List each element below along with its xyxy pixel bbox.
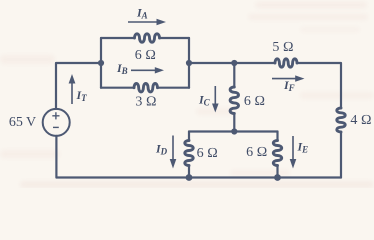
svg-text:6 Ω: 6 Ω (244, 94, 265, 109)
wire inner box right vertical (276, 132, 278, 141)
wire inner box left vertical (188, 132, 190, 141)
wire bottom branch left (101, 87, 134, 89)
arrow ID (172, 136, 174, 161)
wire middle branch upper (233, 63, 235, 87)
wire node B to 5-ohm (189, 62, 275, 64)
node F (274, 174, 281, 181)
wire top branch right (160, 37, 190, 39)
wire top branch left (101, 37, 135, 39)
resistor 6 ohm middle branch (230, 87, 238, 114)
arrow IT (71, 83, 73, 105)
svg-text:4 Ω: 4 Ω (350, 113, 371, 128)
resistor 6 ohm bottom right (273, 141, 281, 166)
resistor 5 ohm (275, 59, 297, 67)
svg-text:5 Ω: 5 Ω (272, 40, 293, 55)
node E (186, 174, 193, 181)
wire bottom rail (57, 176, 342, 178)
wire box right edge (188, 38, 190, 88)
svg-text:6 Ω: 6 Ω (135, 48, 156, 63)
wire inner box top (189, 130, 278, 132)
resistor 6 ohm top branch (135, 34, 160, 42)
arrow IE (292, 136, 294, 160)
wire source top to node A (56, 63, 101, 109)
svg-text:3 Ω: 3 Ω (135, 94, 156, 109)
arrow IA (128, 21, 158, 23)
node C (231, 60, 237, 66)
arrow IF (272, 78, 296, 80)
arrow IC (214, 86, 216, 105)
voltage source V1 65 V (43, 109, 70, 136)
arrow IB (131, 69, 156, 71)
wire right edge lower (340, 132, 342, 178)
node A (98, 60, 104, 66)
resistor 3 ohm bottom branch (134, 84, 157, 92)
paper background (0, 0, 374, 188)
node D (231, 128, 237, 134)
svg-text:6 Ω: 6 Ω (197, 146, 218, 161)
wire 5-ohm to top right corner and down (297, 63, 341, 108)
svg-text:6 Ω: 6 Ω (246, 145, 267, 160)
resistor 4 ohm (337, 108, 345, 132)
wire bottom branch right (158, 87, 190, 89)
svg-text:65 V: 65 V (9, 115, 36, 130)
resistor 6 ohm bottom left (185, 141, 193, 166)
wire bottom left up to source (55, 136, 57, 178)
node B (186, 60, 192, 66)
wire box left edge (100, 38, 102, 88)
wire middle branch lower (233, 114, 235, 132)
